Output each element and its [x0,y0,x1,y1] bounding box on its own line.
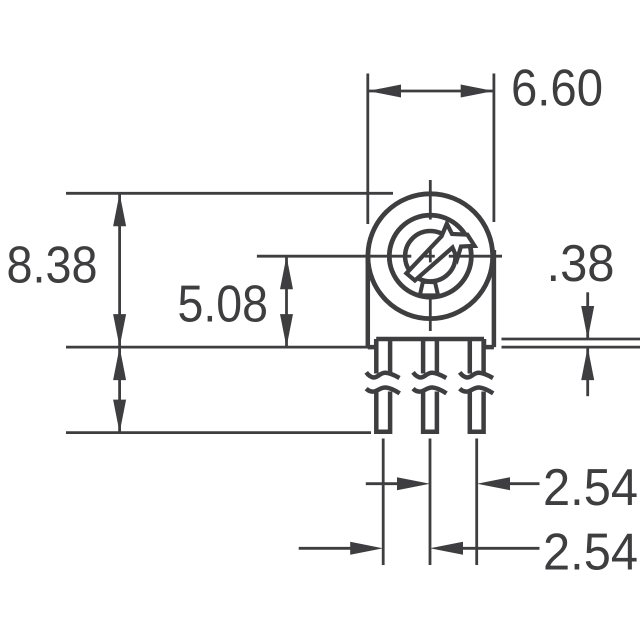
pin 2 upper right edge [435,339,440,374]
2.54 upper dimension leader right [510,482,540,485]
5.08 bottom arrowhead [280,314,293,347]
vertical centerline top segment [429,180,432,220]
pin 1 upper break wave [366,372,399,378]
pin 3 extension line [475,439,478,566]
seating plane line (left) [66,346,376,349]
8.38 top arrowhead [113,193,126,226]
body bottom edge [376,337,484,342]
svg-text:5.08: 5.08 [178,275,269,333]
8.38 bottom arrowhead [113,314,126,347]
6.60 left arrowhead [368,85,401,98]
pin 2 upper left edge [421,339,426,374]
screwdriver slot with arrow [406,224,474,281]
standoff lower line (.38 ref) [502,346,640,349]
2.54 lower dimension leader right [463,547,540,550]
pin 1 extension line [382,439,385,566]
.38 up arrowhead [581,347,594,380]
bottom reference line (7.75 lower) [66,431,371,434]
pin 1 lower segment [376,392,390,432]
2.54 lower dimension leader left [299,547,352,550]
7.75 bottom arrowhead [113,400,126,433]
rotor index wedge [420,282,438,296]
6.60 right extension line [492,74,495,223]
6.60 left extension line [366,74,369,225]
2.54 upper dimension leader left [366,482,410,485]
pin 3 upper right edge [481,339,486,374]
center cross horizontal [425,255,435,258]
pin 2 extension line [429,439,432,566]
body left side [366,258,371,347]
7.75 dimension line [118,347,121,433]
horizontal centerline right segment [449,255,502,258]
svg-text:.38: .38 [547,234,615,292]
pin 2 upper break wave [413,372,446,378]
center cross vertical [429,250,432,263]
svg-text:8.38: 8.38 [7,236,98,294]
outer circle (body) [368,194,493,319]
2.54 lower right-pointing arrowhead [350,542,383,555]
6.60 dimension line [368,90,494,93]
standoff upper line (.38 ref) [502,338,640,341]
.38 down arrowhead [581,306,594,339]
pin 1 lower break wave [366,387,400,393]
pins [366,339,493,432]
top tangent line (8.38 upper reference) [66,192,393,195]
.38 dimension line upper [586,292,589,339]
svg-text:2.54: 2.54 [543,523,638,581]
svg-text:2.54: 2.54 [543,458,638,516]
5.08 top arrowhead [280,256,293,289]
.38 dimension line lower [586,347,589,396]
pin 2 lower segment [423,392,437,432]
svg-text:6.60: 6.60 [511,59,603,117]
middle circle (rotor well) [389,215,471,297]
2.54 upper right-pointing arrowhead [397,477,430,490]
pin 3 upper break wave [460,372,493,378]
pin 3 lower break wave [460,387,494,393]
7.75 top arrowhead [113,347,126,380]
vertical centerline bottom segment [429,294,432,331]
pin 2 lower break wave [413,387,447,393]
pin 3 upper left edge [468,339,473,374]
2.54 upper left-pointing arrowhead [477,477,510,490]
horizontal centerline left segment [257,255,411,258]
body right foot [484,339,494,347]
pin 1 upper right edge [388,339,393,374]
8.38 dimension line [118,193,121,347]
inner circle (rotor) [405,231,455,281]
pin 3 lower segment [470,392,484,432]
pin 1 upper left edge [374,339,379,374]
body left foot [368,339,376,347]
6.60 right arrowhead [461,85,494,98]
body right side [492,250,497,347]
5.08 dimension line [285,256,288,347]
2.54 lower left-pointing arrowhead [430,542,463,555]
